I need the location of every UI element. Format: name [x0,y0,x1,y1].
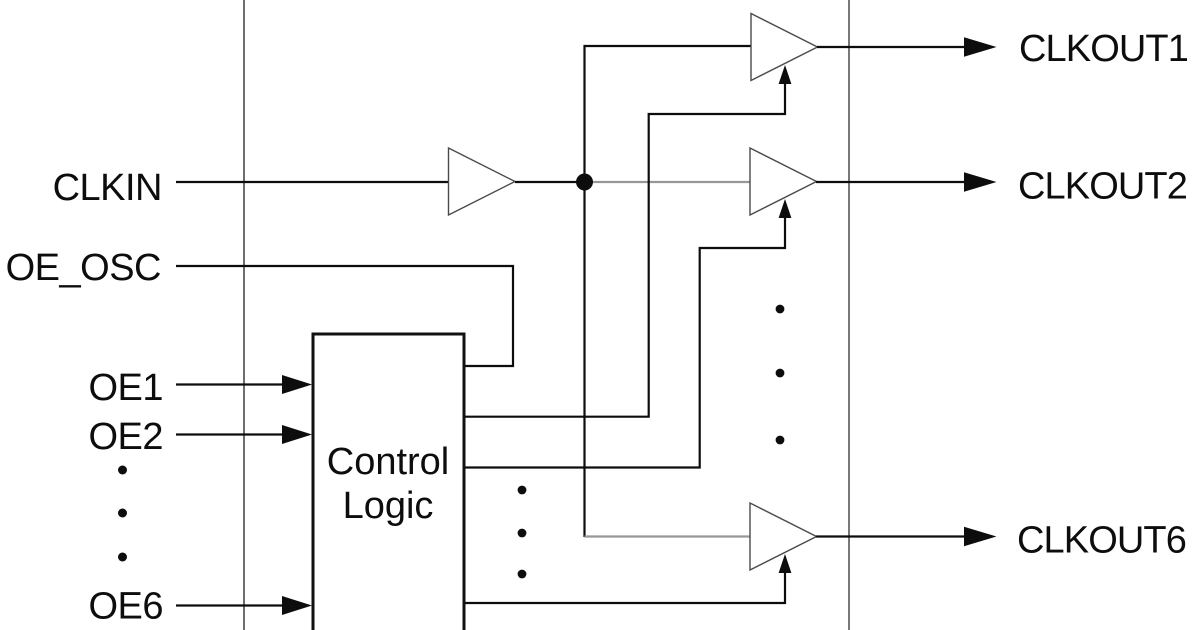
svg-text:CLKOUT2: CLKOUT2 [1018,166,1187,208]
buffer U2 CLKOUT1 output buffer [751,14,818,81]
wire enable EN6 control output to buffer U4 [465,572,785,603]
arrowhead OE1 [282,375,312,394]
svg-text:OE6: OE6 [88,586,163,628]
wire CLKOUT1 output [817,46,966,48]
ellipsis dots OE inputs [118,466,127,475]
buffer U1 CLKIN input buffer [449,148,516,215]
arrowhead CLKOUT2 [964,172,997,191]
wire CLKIN input [176,181,449,183]
node A junction dot [576,174,593,191]
wire OE6 [176,604,285,606]
svg-text:OE_OSC: OE_OSC [6,247,161,289]
chip outline left border [243,0,245,630]
svg-text:Logic: Logic [343,485,434,527]
svg-text:Control: Control [327,441,450,483]
ellipsis dots control outputs [518,486,527,495]
svg-text:OE2: OE2 [88,416,163,458]
arrowhead EN2 [779,199,792,218]
wire CLKOUT2 output [816,181,966,183]
wire node A to buffer U3 (gray) [585,181,751,183]
wire enable EN1 control output to buffer U2 [465,83,785,417]
wire node A bottom to buffer U4 (gray) [585,535,751,537]
arrowhead EN6 [779,554,792,573]
wire OE_OSC to control logic [176,266,513,366]
arrowhead OE2 [282,425,312,444]
svg-text:OE1: OE1 [88,367,163,409]
control logic block U5 [313,334,464,630]
buffer U4 CLKOUT6 output buffer [750,503,817,570]
arrowhead CLKOUT6 [964,527,997,546]
wire CLKOUT6 output [816,535,966,537]
wire OE2 [176,433,285,435]
buffer U3 CLKOUT2 output buffer [750,148,817,215]
wire OE1 [176,383,285,385]
arrowhead EN1 [779,65,792,84]
wire U1 output to node A [515,181,585,183]
arrowhead CLKOUT1 [964,37,997,56]
wire trunk vertical node A [585,46,752,537]
svg-text:CLKOUT6: CLKOUT6 [1017,520,1186,562]
arrowhead OE6 [282,596,312,615]
chip outline right border [848,0,850,630]
svg-text:CLKIN: CLKIN [53,167,162,209]
svg-text:CLKOUT1: CLKOUT1 [1019,28,1188,70]
wire enable EN2 control output to buffer U3 [465,217,785,468]
ellipsis dots output buffers [776,305,785,314]
